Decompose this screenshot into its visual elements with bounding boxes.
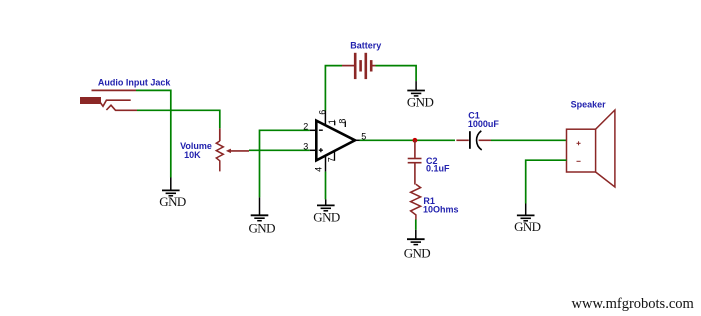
svg-text:GND: GND — [249, 221, 276, 236]
svg-text:3: 3 — [303, 142, 308, 152]
svg-text:Battery: Battery — [350, 40, 381, 50]
svg-text:GND: GND — [313, 210, 340, 225]
svg-text:GND: GND — [514, 219, 541, 234]
svg-text:6: 6 — [318, 110, 328, 115]
svg-text:10Ohms: 10Ohms — [423, 204, 459, 214]
svg-text:2: 2 — [303, 122, 308, 132]
svg-text:GND: GND — [159, 194, 186, 209]
svg-text:1000uF: 1000uF — [468, 119, 500, 129]
svg-text:4: 4 — [313, 167, 323, 172]
svg-text:Audio Input Jack: Audio Input Jack — [98, 78, 171, 88]
svg-text:Speaker: Speaker — [571, 100, 607, 110]
svg-text:0.1uF: 0.1uF — [426, 164, 450, 174]
svg-text:10K: 10K — [184, 150, 201, 160]
svg-text:GND: GND — [407, 94, 434, 109]
svg-text:GND: GND — [404, 245, 431, 260]
svg-text:www.mfgrobots.com: www.mfgrobots.com — [572, 296, 695, 312]
